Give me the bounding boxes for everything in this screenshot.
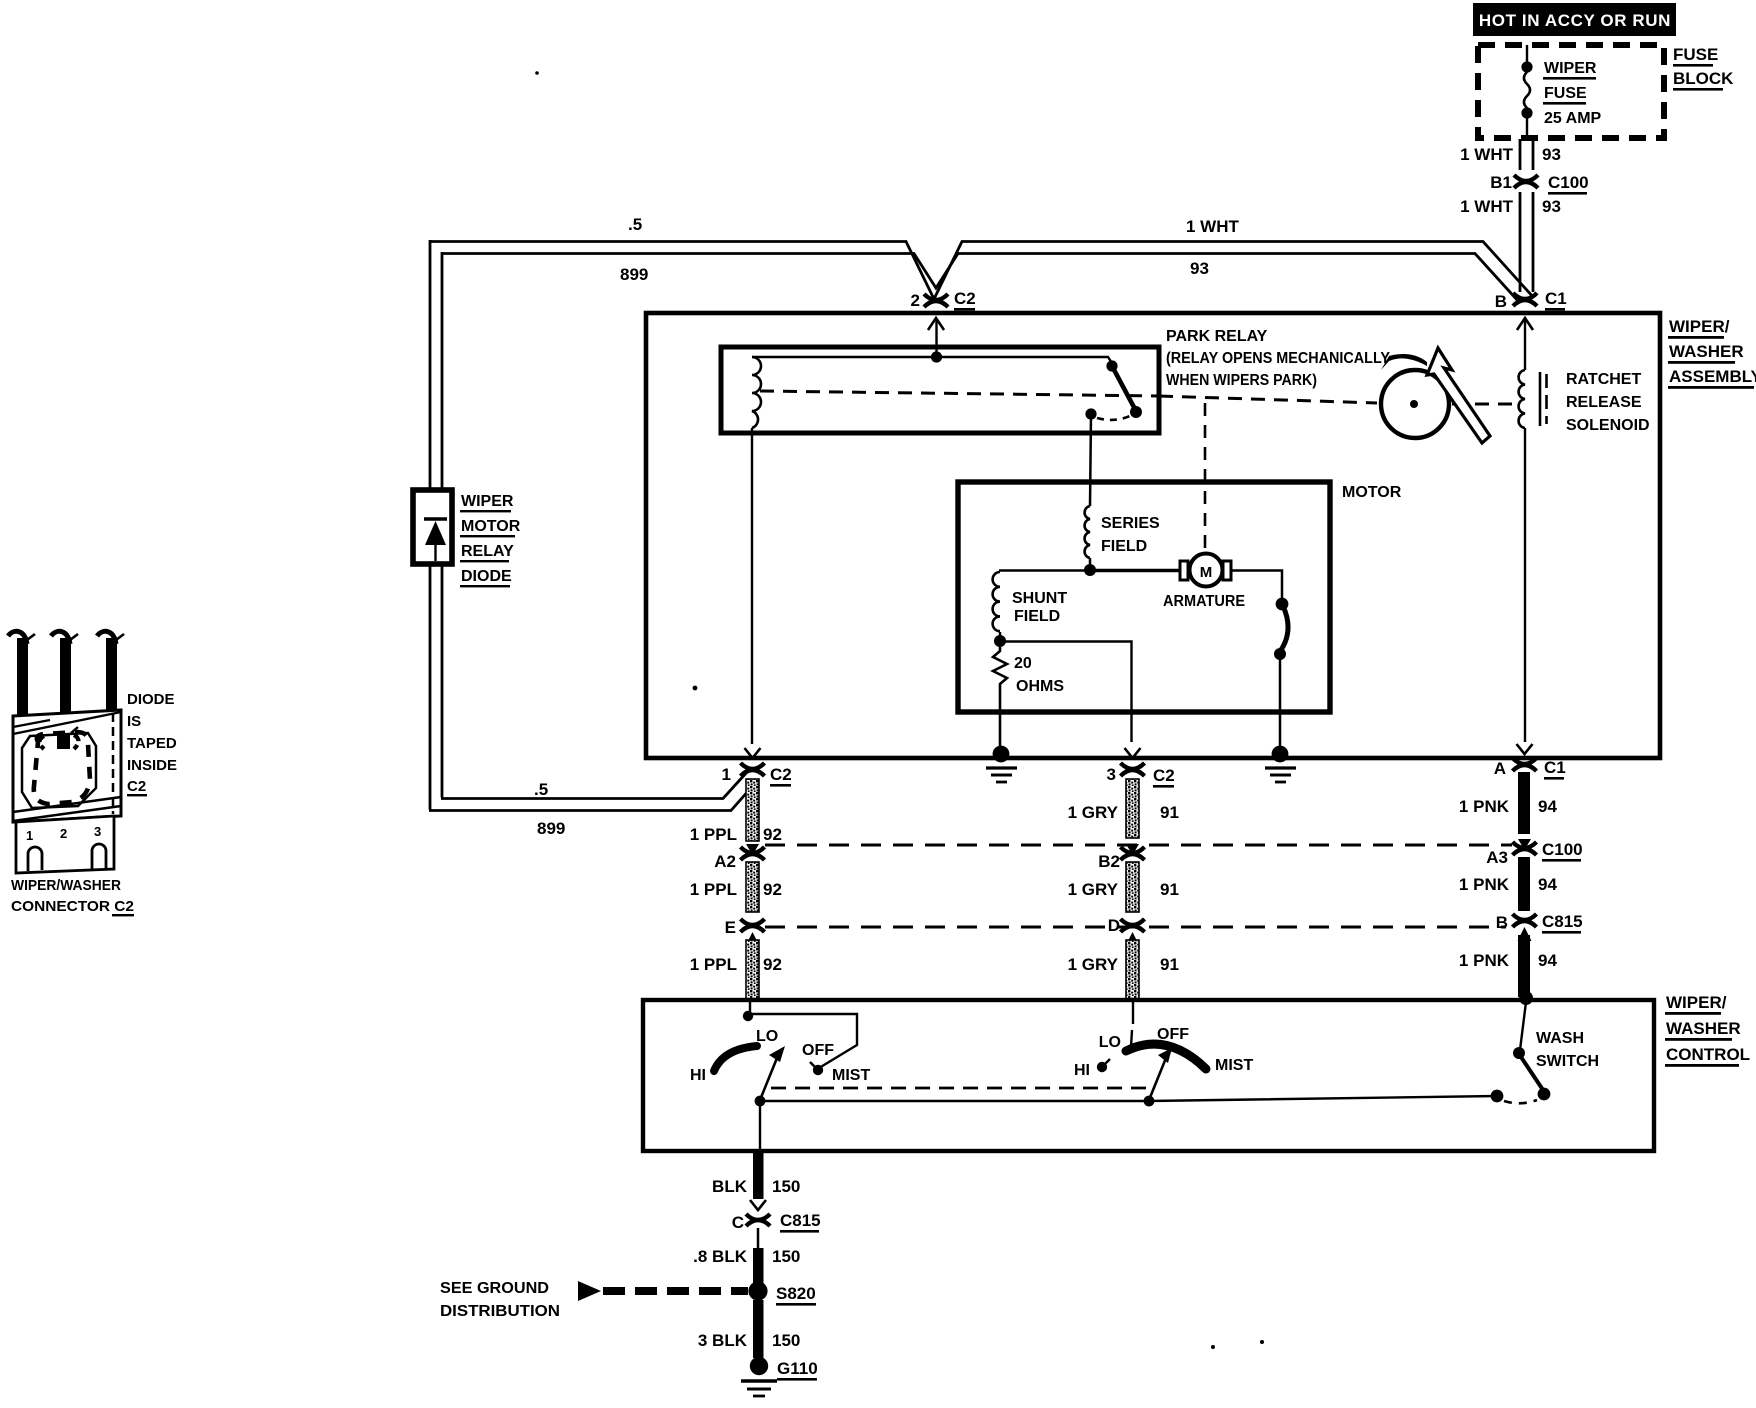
wire 1 WHT 93 (fuse to C100), double-line: [1520, 139, 1533, 170]
svg-text:91: 91: [1160, 880, 1179, 899]
dashed bulkhead line C815: [765, 926, 1506, 929]
stray mark: [535, 71, 539, 75]
label WIPER/WASHER CONTROL: [1665, 993, 1750, 1067]
svg-text:93: 93: [1542, 145, 1561, 164]
svg-text:A3: A3: [1486, 848, 1508, 867]
ratchet release solenoid coil: [1519, 370, 1525, 428]
svg-text:FIELD: FIELD: [1014, 608, 1060, 625]
svg-text:1 GRY: 1 GRY: [1068, 803, 1119, 822]
svg-text:WIPER/: WIPER/: [1666, 993, 1727, 1012]
svg-text:1: 1: [26, 828, 33, 843]
connector 2 C2: [924, 294, 948, 307]
svg-text:1 PNK: 1 PNK: [1459, 875, 1510, 894]
label WIPER MOTOR RELAY DIODE: [460, 493, 521, 587]
connector C2 shell (lower, pins 1 2 3): [16, 816, 114, 873]
label WIPER/WASHER CONNECTOR C2: [11, 877, 134, 916]
svg-text:DISTRIBUTION: DISTRIBUTION: [440, 1303, 560, 1320]
svg-text:WHEN WIPERS PARK): WHEN WIPERS PARK): [1166, 372, 1317, 389]
wire 1 PPL 92 segment 2 (gray): [690, 862, 782, 912]
svg-text:B: B: [1495, 292, 1507, 311]
stray mark: [1211, 1345, 1215, 1349]
common wire along bottom: [760, 1096, 1497, 1101]
svg-text:LO: LO: [1099, 1034, 1121, 1051]
svg-text:ASSEMBLY: ASSEMBLY: [1669, 367, 1756, 386]
wiper/washer control box: [643, 1000, 1654, 1151]
svg-text:C2: C2: [954, 289, 976, 308]
svg-text:1 PPL: 1 PPL: [690, 955, 737, 974]
wire brush to ground: [1279, 654, 1282, 750]
svg-text:WASH: WASH: [1536, 1030, 1584, 1047]
label PARK RELAY note: [1166, 328, 1390, 389]
wire park relay switch to series field: [1090, 414, 1091, 506]
svg-text:WASHER: WASHER: [1666, 1019, 1741, 1038]
park relay coil: [752, 357, 761, 428]
svg-text:92: 92: [763, 880, 782, 899]
wire to BLK exit: [759, 1101, 761, 1151]
svg-text:BLOCK: BLOCK: [1673, 69, 1734, 88]
svg-text:E: E: [725, 918, 736, 937]
connector D: [1121, 919, 1145, 946]
connector B2: [1121, 844, 1145, 860]
wire 1 PPL 92 segment 1 (gray): [690, 779, 782, 844]
svg-text:1: 1: [722, 765, 731, 784]
connector C2 body (upper): [13, 710, 121, 822]
svg-text:PARK RELAY: PARK RELAY: [1166, 328, 1268, 345]
diode component inside: [40, 727, 79, 749]
wire junction to armature: [1090, 569, 1181, 573]
svg-text:RELEASE: RELEASE: [1566, 394, 1642, 411]
svg-text:1 PPL: 1 PPL: [690, 825, 737, 844]
svg-text:(RELAY OPENS MECHANICALLY: (RELAY OPENS MECHANICALLY: [1166, 350, 1390, 367]
ratchet pawl (hollow arrow): [1427, 348, 1490, 443]
park relay box: [721, 347, 1159, 433]
svg-text:WIPER/: WIPER/: [1669, 317, 1730, 336]
switch lever (middle): [1149, 1058, 1166, 1100]
svg-text:CONTROL: CONTROL: [1666, 1045, 1750, 1064]
svg-text:899: 899: [620, 265, 648, 284]
svg-text:OFF: OFF: [802, 1042, 834, 1059]
svg-text:HI: HI: [690, 1067, 706, 1084]
svg-text:SHUNT: SHUNT: [1012, 590, 1067, 607]
connector A2: [741, 844, 765, 860]
svg-text:93: 93: [1542, 197, 1561, 216]
motor box: [958, 482, 1330, 712]
svg-text:DIODE: DIODE: [461, 568, 512, 585]
svg-text:WIPER: WIPER: [461, 493, 514, 510]
wiper switch (middle) wire in: [1132, 1002, 1134, 1024]
svg-text:3: 3: [94, 824, 101, 839]
connector A C1 (exit arrow + arcs): [1513, 744, 1537, 771]
junction dot: [931, 351, 942, 362]
svg-text:C1: C1: [1545, 289, 1567, 308]
junction dot (middle lever): [1144, 1096, 1155, 1107]
svg-text:1 PPL: 1 PPL: [690, 880, 737, 899]
svg-text:150: 150: [772, 1331, 800, 1350]
MIST contact dot: [813, 1065, 823, 1075]
wire 1 PNK 94 segment 1 (black): [1459, 772, 1558, 834]
svg-text:94: 94: [1538, 951, 1557, 970]
svg-text:D: D: [1108, 916, 1120, 935]
svg-text:.5: .5: [534, 780, 548, 799]
wire junction to 3 C2 exit: [1000, 642, 1132, 743]
wire .8 BLK 150 (C815 to S820): [757, 1228, 760, 1248]
label RATCHET RELEASE SOLENOID: [1566, 371, 1650, 434]
svg-text:B1: B1: [1490, 173, 1512, 192]
svg-text:MOTOR: MOTOR: [1342, 484, 1402, 501]
svg-text:92: 92: [763, 825, 782, 844]
wire junction to shunt field: [999, 569, 1090, 572]
svg-text:B: B: [1496, 913, 1508, 932]
svg-text:25 AMP: 25 AMP: [1544, 110, 1602, 127]
svg-text:WIPER: WIPER: [1544, 60, 1597, 77]
wire park relay coil to 1 C2 exit: [751, 428, 753, 744]
mechanical dashed link park relay to ratchet: [760, 391, 1159, 396]
svg-text:C2: C2: [127, 778, 146, 795]
connector A3 C100: [1513, 839, 1537, 855]
resistor 20 OHMS: [993, 647, 1007, 688]
svg-text:20: 20: [1014, 655, 1032, 672]
svg-text:.8 BLK: .8 BLK: [693, 1247, 748, 1266]
svg-text:M: M: [1200, 564, 1213, 581]
svg-text:BLK: BLK: [712, 1177, 748, 1196]
taped diode bundle (dashed): [34, 732, 90, 804]
svg-text:FUSE: FUSE: [1673, 45, 1718, 64]
svg-text:S820: S820: [776, 1284, 816, 1303]
svg-text:150: 150: [772, 1177, 800, 1196]
park relay switch contacts: [1085, 360, 1142, 420]
ground G110: [741, 1357, 777, 1396]
svg-text:C2: C2: [1153, 766, 1175, 785]
svg-text:3 BLK: 3 BLK: [698, 1331, 748, 1350]
svg-text:C: C: [732, 1213, 744, 1232]
connector B1 C100: [1514, 175, 1538, 188]
wire 3: [97, 631, 124, 716]
switch lever (left): [760, 1058, 777, 1100]
wire 1 PNK 94 segment 3 (black): [1459, 935, 1558, 997]
svg-text:MIST: MIST: [1215, 1057, 1253, 1074]
svg-text:RELAY: RELAY: [461, 543, 514, 560]
svg-text:OHMS: OHMS: [1016, 678, 1064, 695]
svg-text:3: 3: [1107, 765, 1116, 784]
connector E: [741, 919, 765, 946]
shunt field coil: [993, 572, 1000, 631]
connector C C815: [746, 1200, 770, 1226]
svg-text:93: 93: [1190, 259, 1209, 278]
svg-text:WASHER: WASHER: [1669, 342, 1744, 361]
mechanical dashed link (switch levers): [771, 1087, 1150, 1090]
svg-text:WIPER/WASHER: WIPER/WASHER: [11, 877, 121, 894]
svg-text:SOLENOID: SOLENOID: [1566, 417, 1650, 434]
fuse WIPER FUSE 25 AMP: [1521, 45, 1601, 138]
wiper/washer assembly box: [646, 313, 1660, 758]
motor armature M: [1180, 554, 1231, 587]
wire 1 GRY 91 segment 2 (gray): [1068, 862, 1179, 912]
svg-text:LO: LO: [756, 1028, 778, 1045]
wash switch contacts: [1513, 1047, 1525, 1059]
wire BLK 150 (control box to C815): [753, 1151, 764, 1199]
svg-text:A2: A2: [714, 852, 736, 871]
svg-text:1 PNK: 1 PNK: [1459, 797, 1510, 816]
stray mark: [693, 686, 698, 691]
wire 1 GRY 91 segment 1 (gray): [1068, 779, 1179, 838]
wire relay coil top to switch: [752, 357, 1112, 363]
ground (motor shunt): [986, 746, 1017, 782]
svg-text:1 WHT: 1 WHT: [1460, 145, 1514, 164]
label FUSE BLOCK: [1673, 45, 1734, 91]
wire 899 top run (double line, left vertical + horizontal): [430, 240, 1534, 810]
dashed link park relay to armature: [1204, 403, 1207, 552]
node HOT IN ACCY OR RUN power label: [1473, 3, 1676, 36]
svg-text:1 WHT: 1 WHT: [1186, 217, 1240, 236]
svg-text:A: A: [1494, 759, 1506, 778]
stray mark: [1260, 1340, 1264, 1344]
connector 3 C2 (exit arrow + arcs): [1121, 748, 1145, 776]
wire 899 lower run (double line to connector 1 C2): [429, 771, 757, 811]
svg-text:FUSE: FUSE: [1544, 85, 1587, 102]
svg-text:C2: C2: [770, 765, 792, 784]
junction dot (left lever): [755, 1096, 766, 1107]
ratchet wheel: [1381, 370, 1449, 438]
svg-text:92: 92: [763, 955, 782, 974]
label DIODE IS TAPED INSIDE C2: [127, 691, 177, 796]
wire B C1 into assembly (up arrow): [1517, 318, 1533, 330]
svg-text:91: 91: [1160, 955, 1179, 974]
svg-text:MOTOR: MOTOR: [461, 518, 521, 535]
wire 3 BLK 150 (S820 to G110): [753, 1300, 764, 1358]
wiper blade arc HI-LO (left switch): [714, 1046, 757, 1071]
label WIPER/WASHER ASSEMBLY: [1668, 317, 1756, 389]
svg-text:ARMATURE: ARMATURE: [1163, 593, 1245, 610]
junction dot below shunt field: [999, 632, 1002, 639]
wire resistor to ground: [999, 688, 1002, 750]
svg-text:INSIDE: INSIDE: [127, 757, 177, 774]
fuse block (dashed box): [1478, 45, 1664, 138]
svg-text:DIODE: DIODE: [127, 691, 175, 708]
svg-text:HI: HI: [1074, 1062, 1090, 1079]
svg-text:94: 94: [1538, 875, 1557, 894]
wire 1 GRY 91 segment 3 (gray): [1068, 940, 1179, 1000]
wire solenoid to A C1: [1524, 428, 1526, 742]
svg-text:C100: C100: [1542, 840, 1583, 859]
svg-text:899: 899: [537, 819, 565, 838]
svg-text:1 GRY: 1 GRY: [1068, 880, 1119, 899]
connector 1 C2 (exit arrow + arcs): [741, 748, 765, 776]
wire 1 PNK 94 segment 2 (black): [1459, 857, 1558, 911]
HI contact dot (middle): [1097, 1062, 1107, 1072]
svg-text:G110: G110: [777, 1359, 818, 1378]
svg-text:C815: C815: [1542, 912, 1583, 931]
wire 2: [51, 631, 78, 716]
svg-text:1 PNK: 1 PNK: [1459, 951, 1510, 970]
svg-text:MIST: MIST: [832, 1067, 870, 1084]
connector B C1: [1513, 293, 1537, 306]
wire C2 to park relay (with up arrow): [928, 318, 944, 330]
rotation arrow: [1381, 354, 1427, 370]
wiper motor relay diode D1: [413, 490, 452, 564]
svg-text:150: 150: [772, 1247, 800, 1266]
wire to MIST contact: [748, 1014, 857, 1068]
see ground distribution arrow (dashed): [578, 1281, 601, 1301]
svg-text:IS: IS: [127, 713, 141, 730]
svg-text:91: 91: [1160, 803, 1179, 822]
wiper blade arc LO-OFF-MIST (middle switch): [1126, 1044, 1206, 1069]
svg-text:1 WHT: 1 WHT: [1460, 197, 1514, 216]
svg-text:1 GRY: 1 GRY: [1068, 955, 1119, 974]
ground (motor armature): [1265, 746, 1296, 782]
wire 1 PPL 92 segment 3 (gray): [690, 940, 782, 1000]
svg-text:RATCHET: RATCHET: [1566, 371, 1641, 388]
svg-text:SWITCH: SWITCH: [1536, 1053, 1599, 1070]
svg-text:94: 94: [1538, 797, 1557, 816]
connector B C815: [1513, 914, 1537, 941]
splice S820: [748, 1281, 767, 1300]
svg-text:2: 2: [60, 826, 67, 841]
wire series field to junction: [1089, 558, 1092, 568]
dashed bulkhead line C100: [765, 844, 1512, 847]
series field coil: [1085, 506, 1090, 558]
svg-text:TAPED: TAPED: [127, 735, 177, 752]
svg-text:2: 2: [911, 291, 920, 310]
wiper switch (left) wire in: [749, 1002, 751, 1013]
svg-text:SERIES: SERIES: [1101, 515, 1160, 532]
svg-text:C1: C1: [1544, 758, 1566, 777]
svg-text:HOT IN ACCY OR RUN: HOT IN ACCY OR RUN: [1479, 11, 1671, 30]
brush contact arc: [1276, 598, 1289, 611]
junction dot: [1084, 564, 1096, 576]
wire 1 WHT 93 (C100 to C1), double-line: [1520, 192, 1533, 292]
svg-text:C100: C100: [1548, 173, 1589, 192]
junction dot: [743, 1011, 753, 1021]
wiper/washer connector C2 pictorial: wire 1: [8, 631, 35, 716]
svg-text:SEE GROUND: SEE GROUND: [440, 1280, 549, 1297]
wire armature to brush switch: [1231, 571, 1282, 599]
svg-text:B2: B2: [1098, 852, 1120, 871]
svg-text:FIELD: FIELD: [1101, 538, 1147, 555]
svg-text:.5: .5: [628, 215, 642, 234]
svg-text:CONNECTOR C2: CONNECTOR C2: [11, 898, 134, 915]
wash switch wire in (dot on box edge): [1519, 991, 1533, 1005]
svg-text:C815: C815: [780, 1211, 821, 1230]
